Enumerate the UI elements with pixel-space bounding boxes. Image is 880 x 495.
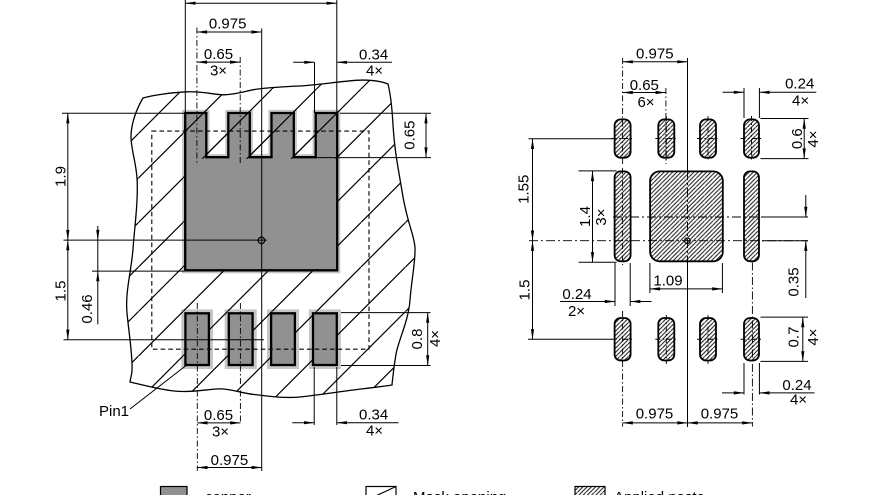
- dim 0.24 4x (bottom right): [722, 392, 744, 394]
- svg-text:0.46: 0.46: [79, 294, 96, 323]
- ext line bottom row center: [528, 338, 612, 340]
- svg-text:0.6: 0.6: [789, 128, 806, 149]
- dashed courtyard outline: [152, 131, 369, 349]
- svg-text:0.65: 0.65: [204, 407, 233, 424]
- svg-text:3×: 3×: [210, 63, 227, 80]
- dim 1.5 (left): [532, 241, 534, 340]
- dim 0.65 (right, lead length): [425, 113, 427, 157]
- svg-text:0.24: 0.24: [785, 76, 814, 93]
- ext lines 0.6 dim: [761, 118, 809, 120]
- extension line pad right edge (top, long): [336, 0, 338, 113]
- svg-text:1.5: 1.5: [517, 280, 534, 301]
- dim 1.09: [650, 288, 723, 290]
- legend paste swatch: [575, 487, 605, 495]
- ext lines right of bottom pad4: [341, 312, 431, 314]
- svg-text:4×: 4×: [366, 423, 383, 440]
- dim 0.6 4x (right): [803, 119, 805, 159]
- column B centerline top: [665, 88, 667, 164]
- svg-text:0.65: 0.65: [204, 46, 233, 63]
- dim 1.5 (left): [67, 240, 69, 340]
- svg-text:0.975: 0.975: [209, 16, 247, 33]
- ext lines pad D bottom edges: [743, 363, 745, 395]
- dim 0.65 3x (top): [197, 61, 240, 63]
- dim 1.4 3x: [592, 171, 594, 262]
- svg-text:0.34: 0.34: [359, 47, 388, 64]
- hatch over lead strip: [184, 111, 339, 159]
- column D centerline bottom: [751, 263, 753, 427]
- svg-text:4×: 4×: [805, 130, 822, 147]
- svg-text:1.5: 1.5: [53, 281, 70, 302]
- svg-text:0.975: 0.975: [636, 45, 674, 62]
- svg-text:0.975: 0.975: [701, 406, 739, 423]
- central pad horizontal centerline: [613, 216, 808, 218]
- stencil pad top row C: [700, 119, 716, 157]
- stencil tall pad left: [615, 171, 631, 261]
- stencil pad bottom row B: [658, 318, 674, 361]
- bottom pad 4: [313, 313, 337, 365]
- ext lines pad D top edges: [743, 88, 745, 118]
- stencil pad bottom row C: [700, 318, 716, 361]
- dim 0.975 (top): [623, 61, 688, 63]
- svg-text:6×: 6×: [637, 94, 654, 111]
- legend mask swatch: [366, 487, 396, 495]
- column A centerline bottom: [622, 311, 624, 427]
- svg-text:4×: 4×: [366, 62, 383, 79]
- vertical centerline: [261, 29, 263, 472]
- svg-text:0.7: 0.7: [786, 327, 803, 348]
- bottom pad 3: [271, 313, 295, 365]
- ext lines 1.4 dim: [579, 170, 617, 172]
- dim 1.55 (left): [532, 139, 534, 241]
- pad center marks (dash-dot crosses): [612, 116, 763, 364]
- legend copper swatch: [161, 487, 188, 495]
- svg-text:3×: 3×: [593, 208, 610, 225]
- svg-text:Mask opening: Mask opening: [413, 489, 506, 495]
- svg-text:1.09: 1.09: [653, 273, 682, 290]
- stencil pad bottom row D: [744, 318, 759, 361]
- column A centerline top: [622, 58, 624, 164]
- horizontal centerline to center mark: [64, 239, 267, 241]
- ext lines left tall pad edges: [614, 263, 616, 306]
- stencil central thermal aperture: [650, 171, 723, 261]
- svg-text:Applied paste: Applied paste: [614, 489, 705, 495]
- svg-text:1.9: 1.9: [53, 166, 70, 187]
- stencil pad bottom row A: [615, 318, 631, 361]
- dim 0.34 4x (top): [293, 61, 314, 63]
- mask-opening halo around central pad: [182, 110, 340, 274]
- extension lines bottom pad4 edges: [313, 367, 315, 425]
- dim 1.9 (left): [67, 113, 69, 240]
- PCB blob outline: [127, 80, 415, 397]
- mask-opening halos around bottom pads: [181, 309, 213, 369]
- ext lines right of lead strip: [340, 112, 431, 114]
- dim 0.35 (right): [805, 195, 807, 217]
- svg-text:0.24: 0.24: [562, 286, 591, 303]
- svg-text:4×: 4×: [805, 328, 822, 345]
- svg-text:0.35: 0.35: [786, 267, 803, 296]
- center mark right figure: [685, 238, 691, 244]
- stencil pad top row D: [744, 119, 759, 157]
- pin2 centerline top: [239, 57, 241, 164]
- pin1 centerline bottom: [196, 303, 198, 471]
- svg-text:0.34: 0.34: [359, 407, 388, 424]
- svg-text:0.975: 0.975: [211, 452, 249, 469]
- stencil tall pad right: [744, 171, 759, 261]
- vertical centerline right figure: [687, 58, 689, 171]
- bottom pad 1 (Pin1): [185, 313, 209, 365]
- dim 0.24 2x: [560, 301, 615, 303]
- extension line pad left edge (top): [184, 0, 186, 113]
- left tall pad centerline: [622, 168, 624, 265]
- stencil pad top row A: [615, 119, 631, 157]
- dim 0.975 right (bottom): [688, 422, 753, 424]
- horizontal centerline right figure: [529, 240, 808, 242]
- svg-text:0.65: 0.65: [630, 77, 659, 94]
- center mark: [258, 237, 265, 244]
- right figure texts: [515, 45, 822, 422]
- pin1 centerline top: [196, 28, 198, 165]
- dim 0.7 4x (right): [802, 317, 804, 361]
- svg-text:Pin1: Pin1: [99, 403, 129, 420]
- dim 0.65 3x (bottom): [197, 422, 240, 424]
- central thermal pad with castellated top (leads): [185, 113, 337, 270]
- Pin1 leader line: [130, 364, 188, 409]
- dim 0.65 6x (top): [623, 92, 666, 94]
- svg-text:2×: 2×: [568, 303, 585, 320]
- dim 0.46 (left): [97, 240, 99, 271]
- svg-text:4×: 4×: [792, 93, 809, 110]
- pin2 centerline bottom: [239, 303, 241, 423]
- bottom pad 2: [229, 313, 253, 365]
- ext lines central pad bottom corners: [649, 263, 651, 293]
- extension line y=340 (bottom pads center): [64, 339, 265, 341]
- dim 0.24 4x (top right): [723, 91, 745, 93]
- dim 0.975 (top): [197, 31, 262, 33]
- svg-text:3×: 3×: [212, 424, 229, 441]
- svg-text:4×: 4×: [790, 392, 807, 409]
- extension line y=271 (pad bottom): [92, 270, 184, 272]
- svg-text:0.65: 0.65: [402, 120, 419, 149]
- stencil pad top row B: [658, 119, 674, 157]
- extension line y=113 left: [62, 112, 185, 114]
- svg-text:1.55: 1.55: [515, 175, 532, 204]
- dim 0.34 4x (bottom): [292, 422, 314, 424]
- svg-text:copper: copper: [205, 489, 251, 495]
- ext line top row center: [529, 138, 614, 140]
- dim 0.8 4x (right): [427, 313, 429, 366]
- ext lines 0.7 dim: [761, 316, 809, 318]
- dim 0.975 left (bottom): [623, 422, 688, 424]
- left figure texts: [53, 16, 445, 470]
- svg-text:1.4: 1.4: [577, 206, 594, 227]
- svg-text:0.975: 0.975: [636, 406, 674, 423]
- svg-text:4×: 4×: [427, 330, 444, 347]
- PCB hatch under pads: [118, 70, 428, 410]
- svg-text:0.8: 0.8: [409, 329, 426, 350]
- extension line tab4 left edge: [314, 62, 316, 113]
- dim: overall width (top, label cropped): [185, 2, 336, 4]
- dim 0.975 (bottom): [197, 467, 261, 469]
